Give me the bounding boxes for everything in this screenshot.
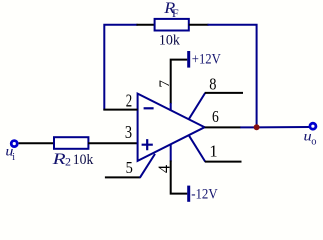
svg-text:F: F [172, 6, 179, 20]
terminal uo [310, 123, 316, 129]
resistor RF [155, 19, 189, 31]
svg-text:2: 2 [65, 155, 71, 169]
svg-text:10k: 10k [73, 152, 94, 168]
wire input to R2 [19, 142, 54, 144]
op-amp non-inverting plus sign [142, 139, 153, 150]
svg-text:i: i [12, 152, 15, 163]
svg-text:10k: 10k [159, 32, 181, 48]
positive supply bar [187, 51, 190, 68]
pin 8 stub [189, 93, 205, 119]
svg-text:R: R [51, 151, 66, 168]
svg-text:o: o [311, 136, 316, 147]
pin 4 stub [170, 144, 172, 161]
svg-text:3: 3 [125, 122, 132, 142]
pin 1 stub [189, 135, 205, 161]
pin 6 wire [205, 126, 241, 128]
svg-text:5: 5 [126, 158, 133, 177]
negative supply bar [187, 186, 190, 202]
resistor R2 [54, 137, 88, 149]
pin 7 stub [170, 103, 172, 111]
wire RF right lead [189, 24, 209, 26]
op-amp U1 triangle [138, 94, 205, 161]
pin 8 wire [205, 92, 243, 94]
wire RF left lead [137, 24, 156, 26]
pin 7 wire [171, 60, 188, 104]
svg-text:+12V: +12V [192, 52, 221, 68]
svg-text:6: 6 [212, 107, 219, 126]
svg-text:2: 2 [126, 90, 132, 110]
wire output segment [240, 126, 310, 128]
op-amp inverting minus sign [144, 107, 154, 109]
pin 1 wire [205, 161, 242, 163]
wire feedback left vertical [104, 25, 137, 111]
svg-text:4: 4 [154, 165, 173, 173]
pin 5 wire [105, 176, 140, 178]
pin 4 wire [171, 161, 188, 194]
svg-text:-12V: -12V [191, 186, 218, 202]
svg-text:7: 7 [156, 80, 173, 88]
wire R2 to pin 3 [88, 142, 138, 144]
wire feedback right vertical [208, 25, 257, 128]
pin 5 stub [140, 154, 155, 178]
terminal ui [11, 141, 17, 147]
pin 2 wire [103, 109, 137, 111]
svg-text:8: 8 [209, 74, 216, 93]
svg-text:1: 1 [209, 141, 217, 160]
junction node output [254, 124, 260, 130]
